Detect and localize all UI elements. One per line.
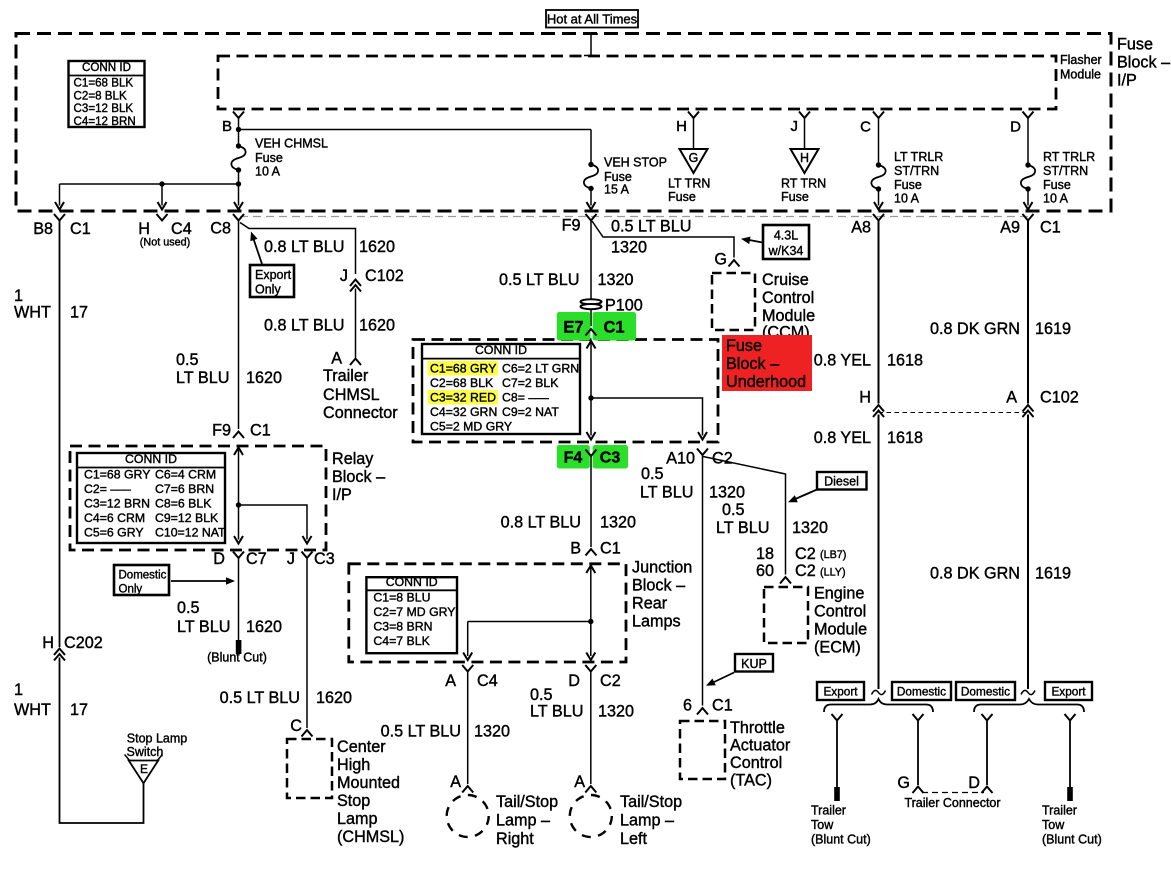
svg-text:Module: Module (762, 307, 815, 325)
svg-text:C4: C4 (171, 220, 192, 238)
svg-text:Rear: Rear (632, 594, 668, 612)
svg-text:Center: Center (337, 738, 386, 756)
svg-text:C1: C1 (600, 539, 621, 557)
svg-text:D: D (1010, 119, 1021, 136)
svg-text:E: E (140, 762, 148, 776)
svg-text:(Blunt Cut): (Blunt Cut) (207, 650, 267, 664)
svg-text:VEH STOP: VEH STOP (604, 156, 667, 170)
svg-text:Lamp: Lamp (337, 810, 378, 828)
svg-text:Lamp –: Lamp – (620, 811, 674, 829)
svg-text:Block –: Block – (332, 468, 385, 486)
svg-text:C9=2 NAT: C9=2 NAT (502, 405, 559, 419)
svg-text:Throttle: Throttle (730, 719, 785, 737)
svg-text:Fuse: Fuse (726, 337, 762, 355)
svg-text:(ECM): (ECM) (814, 638, 861, 656)
svg-text:0.5: 0.5 (177, 599, 200, 617)
svg-text:VEH CHMSL: VEH CHMSL (255, 137, 328, 151)
svg-text:1320: 1320 (598, 271, 634, 289)
svg-text:RT TRN: RT TRN (781, 177, 826, 191)
svg-text:CONN ID: CONN ID (386, 575, 438, 589)
svg-text:Tail/Stop: Tail/Stop (620, 793, 682, 811)
svg-text:0.5: 0.5 (530, 686, 553, 704)
svg-text:C1=68 GRY: C1=68 GRY (430, 361, 496, 375)
svg-text:0.5: 0.5 (176, 351, 199, 369)
svg-text:ST/TRN: ST/TRN (894, 164, 939, 178)
svg-text:C2: C2 (600, 672, 621, 690)
svg-text:F9: F9 (562, 217, 581, 235)
svg-text:1: 1 (14, 681, 23, 699)
svg-text:17: 17 (70, 304, 88, 322)
svg-text:H: H (138, 220, 150, 238)
svg-text:A: A (331, 350, 342, 368)
svg-text:B8: B8 (33, 220, 53, 238)
svg-text:18: 18 (756, 545, 774, 563)
svg-text:A9: A9 (1000, 219, 1020, 237)
svg-text:C8= –––: C8= ––– (502, 390, 549, 404)
svg-text:15 A: 15 A (604, 183, 630, 197)
svg-text:C1: C1 (603, 319, 624, 337)
svg-text:Engine: Engine (814, 584, 864, 602)
svg-text:0.5 LT BLU: 0.5 LT BLU (499, 271, 579, 289)
svg-text:C7: C7 (246, 550, 267, 568)
svg-text:0.5: 0.5 (641, 465, 664, 483)
svg-text:C202: C202 (64, 634, 103, 652)
svg-text:H: H (800, 151, 809, 165)
svg-text:1618: 1618 (887, 429, 923, 447)
svg-text:Stop: Stop (337, 792, 370, 810)
svg-text:10 A: 10 A (894, 192, 920, 206)
svg-text:Control: Control (814, 602, 866, 620)
svg-text:KUP: KUP (741, 657, 767, 671)
svg-text:(Blunt Cut): (Blunt Cut) (811, 832, 871, 846)
svg-text:LT BLU: LT BLU (176, 369, 229, 387)
svg-text:Domestic: Domestic (897, 685, 946, 699)
svg-text:Fuse: Fuse (894, 178, 922, 192)
svg-text:Block –: Block – (1117, 54, 1170, 72)
svg-text:C4=7 BLK: C4=7 BLK (373, 634, 430, 648)
svg-text:C4=32 GRN: C4=32 GRN (430, 405, 497, 419)
svg-text:C1: C1 (712, 697, 733, 715)
svg-text:CONN ID: CONN ID (125, 452, 177, 466)
svg-text:Export: Export (255, 268, 292, 282)
svg-text:D: D (968, 774, 980, 792)
svg-text:WHT: WHT (14, 304, 51, 322)
svg-text:C7=2 BLK: C7=2 BLK (502, 376, 559, 390)
svg-text:C10=12 NAT: C10=12 NAT (155, 526, 226, 540)
svg-text:Trailer: Trailer (323, 367, 369, 385)
svg-text:Export: Export (1051, 685, 1086, 699)
svg-text:Left: Left (620, 830, 648, 848)
svg-text:LT BLU: LT BLU (177, 618, 230, 636)
svg-text:(LB7): (LB7) (820, 549, 846, 561)
svg-text:C4: C4 (477, 672, 498, 690)
svg-text:G: G (714, 251, 727, 269)
svg-text:C1=68 BLK: C1=68 BLK (74, 77, 134, 90)
svg-text:(Blunt Cut): (Blunt Cut) (1042, 832, 1102, 846)
svg-text:A: A (450, 773, 461, 791)
svg-text:Connector: Connector (323, 404, 398, 422)
svg-text:1: 1 (14, 287, 23, 305)
svg-text:CONN ID: CONN ID (475, 343, 527, 357)
svg-text:Trailer: Trailer (1042, 803, 1077, 817)
svg-text:A10: A10 (666, 449, 695, 467)
svg-text:C4=6 CRM: C4=6 CRM (84, 511, 145, 525)
svg-text:C1: C1 (70, 220, 91, 238)
svg-text:Right: Right (496, 830, 534, 848)
svg-text:17: 17 (70, 701, 88, 719)
svg-text:0.5: 0.5 (722, 501, 745, 519)
svg-text:Module: Module (1060, 68, 1101, 82)
svg-text:C5=2 MD GRY: C5=2 MD GRY (430, 419, 512, 433)
svg-text:LT TRN: LT TRN (668, 177, 710, 191)
svg-text:1320: 1320 (611, 238, 647, 256)
svg-text:C7=6 BRN: C7=6 BRN (155, 482, 214, 496)
svg-text:(LLY): (LLY) (820, 567, 846, 579)
svg-text:Fuse: Fuse (1043, 178, 1071, 192)
svg-text:J: J (791, 118, 799, 135)
svg-text:H: H (859, 388, 871, 406)
svg-text:C6=4 CRM: C6=4 CRM (155, 468, 216, 482)
svg-text:Fuse: Fuse (1117, 36, 1153, 54)
svg-text:C2: C2 (795, 545, 816, 563)
svg-text:I/P: I/P (332, 486, 352, 504)
svg-text:LT BLU: LT BLU (716, 519, 769, 537)
svg-text:D: D (213, 550, 225, 568)
svg-text:J: J (340, 267, 348, 285)
svg-text:C9=12 BLK: C9=12 BLK (155, 511, 219, 525)
svg-text:1620: 1620 (246, 618, 282, 636)
svg-text:1619: 1619 (1035, 564, 1071, 582)
svg-text:1320: 1320 (600, 513, 636, 531)
svg-text:F9: F9 (212, 421, 231, 439)
svg-text:H: H (42, 634, 54, 652)
svg-text:Only: Only (255, 283, 281, 297)
svg-text:F4: F4 (564, 450, 583, 467)
svg-text:Junction: Junction (632, 558, 692, 576)
svg-text:1320: 1320 (598, 702, 634, 720)
svg-text:4.3L: 4.3L (774, 229, 798, 243)
svg-text:C3=12 BLK: C3=12 BLK (74, 102, 134, 115)
svg-text:C: C (290, 717, 302, 735)
svg-text:Fuse: Fuse (255, 151, 283, 165)
svg-text:6: 6 (683, 697, 692, 715)
svg-text:0.5 LT BLU: 0.5 LT BLU (381, 722, 461, 740)
svg-text:A8: A8 (851, 219, 871, 237)
svg-text:1620: 1620 (316, 689, 352, 707)
svg-text:E7: E7 (563, 319, 583, 337)
svg-text:1618: 1618 (887, 351, 923, 369)
svg-text:C1: C1 (1040, 219, 1061, 237)
svg-text:Fuse: Fuse (781, 190, 809, 204)
svg-text:1619: 1619 (1035, 320, 1071, 338)
svg-text:Tail/Stop: Tail/Stop (496, 793, 558, 811)
svg-text:A: A (445, 672, 456, 690)
svg-text:1320: 1320 (709, 483, 745, 501)
svg-text:C8: C8 (210, 220, 231, 238)
svg-text:C2=68 BLK: C2=68 BLK (430, 376, 494, 390)
svg-text:Trailer: Trailer (811, 803, 846, 817)
svg-text:0.8 LT BLU: 0.8 LT BLU (264, 317, 344, 335)
svg-text:C: C (860, 119, 871, 136)
svg-text:Relay: Relay (332, 450, 374, 468)
svg-text:1620: 1620 (359, 238, 395, 256)
svg-text:0.8 LT BLU: 0.8 LT BLU (501, 513, 581, 531)
svg-text:I/P: I/P (1117, 72, 1137, 90)
svg-text:0.8 YEL: 0.8 YEL (814, 429, 871, 447)
svg-text:Fuse: Fuse (668, 190, 696, 204)
svg-text:1620: 1620 (359, 317, 395, 335)
svg-text:10 A: 10 A (1043, 192, 1069, 206)
svg-text:1320: 1320 (792, 519, 828, 537)
svg-text:Tow: Tow (811, 818, 834, 832)
svg-text:0.8 DK GRN: 0.8 DK GRN (930, 564, 1020, 582)
svg-text:60: 60 (756, 562, 774, 580)
svg-text:C2: C2 (795, 562, 816, 580)
svg-text:CONN ID: CONN ID (82, 61, 131, 74)
svg-text:1620: 1620 (246, 369, 282, 387)
svg-text:Diesel: Diesel (824, 475, 859, 489)
svg-text:C2=7 MD GRY: C2=7 MD GRY (373, 605, 455, 619)
svg-text:ST/TRN: ST/TRN (1043, 164, 1088, 178)
svg-text:Underhood: Underhood (726, 373, 806, 391)
svg-text:Lamps: Lamps (632, 612, 681, 630)
svg-text:Switch: Switch (127, 745, 164, 759)
svg-text:C5=6 GRY: C5=6 GRY (84, 526, 144, 540)
svg-text:Trailer Connector: Trailer Connector (904, 796, 1000, 810)
svg-text:C3=32 RED: C3=32 RED (430, 390, 496, 404)
svg-text:1320: 1320 (474, 722, 510, 740)
svg-text:(CHMSL): (CHMSL) (337, 828, 404, 846)
svg-text:C3: C3 (314, 550, 335, 568)
svg-text:0.5 LT BLU: 0.5 LT BLU (220, 689, 300, 707)
svg-text:C102: C102 (1040, 388, 1079, 406)
svg-text:J: J (287, 550, 295, 568)
svg-text:H: H (676, 118, 687, 135)
svg-text:C2: C2 (712, 449, 733, 467)
svg-text:C3: C3 (600, 450, 621, 467)
svg-text:Domestic: Domestic (961, 685, 1010, 699)
svg-text:Domestic: Domestic (119, 570, 167, 582)
svg-text:C1: C1 (250, 421, 271, 439)
svg-text:Flasher: Flasher (1060, 53, 1102, 67)
svg-text:(TAC): (TAC) (730, 771, 772, 789)
svg-text:P100: P100 (605, 296, 643, 314)
svg-text:Block –: Block – (632, 576, 685, 594)
svg-text:C8=6 BLK: C8=6 BLK (155, 497, 212, 511)
svg-text:LT TRLR: LT TRLR (894, 150, 943, 164)
svg-text:C2=8 BLK: C2=8 BLK (74, 89, 127, 102)
svg-text:Control: Control (730, 754, 782, 772)
svg-text:C4=12 BRN: C4=12 BRN (74, 115, 136, 128)
svg-text:RT TRLR: RT TRLR (1043, 150, 1095, 164)
svg-text:WHT: WHT (14, 701, 51, 719)
svg-text:C102: C102 (365, 267, 404, 285)
svg-text:G: G (689, 151, 699, 165)
svg-text:10 A: 10 A (255, 165, 281, 179)
svg-text:w/K34: w/K34 (768, 244, 804, 258)
svg-text:0.8 DK GRN: 0.8 DK GRN (930, 320, 1020, 338)
svg-text:Lamp –: Lamp – (496, 811, 550, 829)
svg-text:C1=68 GRY: C1=68 GRY (84, 468, 150, 482)
svg-text:LT BLU: LT BLU (530, 702, 583, 720)
svg-text:Mounted: Mounted (337, 774, 400, 792)
svg-text:D: D (568, 672, 580, 690)
svg-text:B: B (222, 118, 232, 135)
svg-text:Only: Only (119, 584, 143, 596)
svg-text:CHMSL: CHMSL (323, 386, 380, 404)
svg-text:Export: Export (823, 685, 858, 699)
svg-text:High: High (337, 756, 370, 774)
svg-text:(Not used): (Not used) (140, 236, 190, 248)
svg-text:A: A (574, 773, 585, 791)
svg-text:Hot at All Times: Hot at All Times (547, 11, 638, 26)
svg-text:G: G (897, 774, 910, 792)
svg-text:0.5 LT BLU: 0.5 LT BLU (611, 218, 691, 236)
svg-text:Cruise: Cruise (762, 271, 809, 289)
svg-text:Actuator: Actuator (730, 736, 791, 754)
svg-text:C6=2 LT GRN: C6=2 LT GRN (502, 361, 579, 375)
svg-text:0.8 YEL: 0.8 YEL (814, 351, 871, 369)
svg-text:Block –: Block – (726, 355, 779, 373)
svg-text:Tow: Tow (1042, 818, 1065, 832)
svg-text:LT BLU: LT BLU (640, 483, 693, 501)
svg-text:C3=8 BRN: C3=8 BRN (373, 619, 432, 633)
svg-text:C3=12 BRN: C3=12 BRN (84, 497, 150, 511)
svg-text:B: B (570, 539, 581, 557)
svg-text:0.8 LT BLU: 0.8 LT BLU (264, 238, 344, 256)
svg-text:A: A (1006, 388, 1017, 406)
svg-text:C2= –––: C2= ––– (84, 482, 131, 496)
svg-text:Control: Control (762, 289, 814, 307)
svg-text:Module: Module (814, 620, 867, 638)
svg-text:C1=8 BLU: C1=8 BLU (373, 590, 430, 604)
svg-text:Stop Lamp: Stop Lamp (127, 732, 188, 746)
